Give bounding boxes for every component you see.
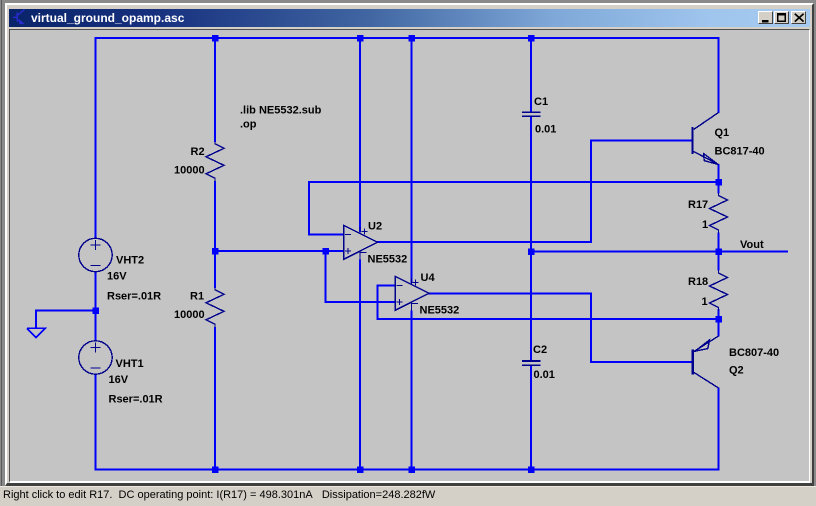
svg-text:0.01: 0.01 bbox=[535, 123, 556, 135]
svg-text:Vout: Vout bbox=[740, 239, 764, 251]
svg-text:10000: 10000 bbox=[174, 165, 205, 177]
svg-text:Q2: Q2 bbox=[729, 365, 744, 377]
svg-text:Rser=.01R: Rser=.01R bbox=[107, 291, 161, 303]
svg-text:Q1: Q1 bbox=[715, 127, 730, 139]
svg-text:C1: C1 bbox=[534, 96, 548, 108]
svg-text:BC807-40: BC807-40 bbox=[729, 347, 779, 359]
svg-text:1: 1 bbox=[702, 219, 708, 231]
svg-text:16V: 16V bbox=[107, 270, 127, 282]
svg-text:R17: R17 bbox=[688, 199, 708, 211]
svg-text:R18: R18 bbox=[688, 276, 708, 288]
svg-text:U4: U4 bbox=[421, 272, 436, 284]
svg-text:NE5532: NE5532 bbox=[420, 305, 460, 317]
svg-text:10000: 10000 bbox=[174, 309, 205, 321]
svg-text:R1: R1 bbox=[190, 291, 204, 303]
svg-text:C2: C2 bbox=[533, 344, 547, 356]
svg-text:Rser=.01R: Rser=.01R bbox=[109, 393, 163, 405]
svg-text:BC817-40: BC817-40 bbox=[715, 145, 765, 157]
svg-text:1: 1 bbox=[702, 296, 708, 308]
svg-text:NE5532: NE5532 bbox=[368, 253, 408, 265]
svg-text:R2: R2 bbox=[191, 146, 205, 158]
svg-text:.lib NE5532.sub: .lib NE5532.sub bbox=[240, 104, 322, 116]
svg-text:0.01: 0.01 bbox=[534, 369, 555, 381]
svg-text:.op: .op bbox=[240, 119, 257, 131]
svg-text:U2: U2 bbox=[368, 221, 382, 233]
svg-text:VHT1: VHT1 bbox=[116, 358, 144, 370]
svg-text:16V: 16V bbox=[109, 374, 129, 386]
svg-text:VHT2: VHT2 bbox=[116, 255, 144, 267]
